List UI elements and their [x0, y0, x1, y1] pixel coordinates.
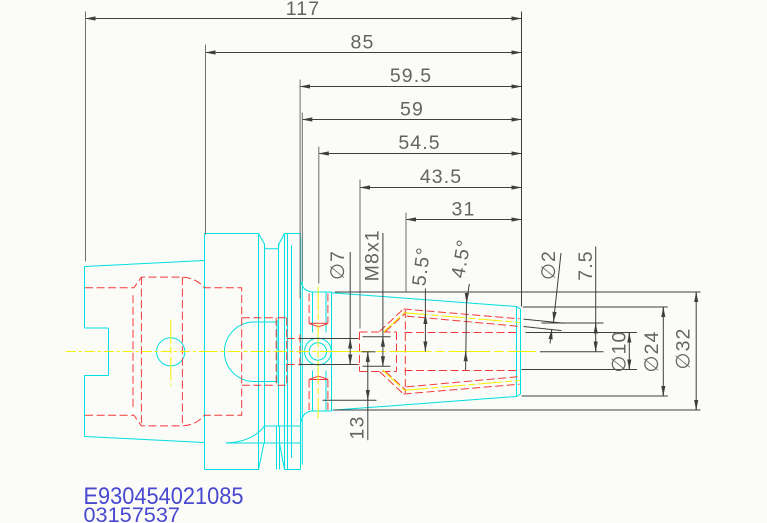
svg-text:∅24: ∅24	[641, 331, 663, 373]
coolant channel bottom	[404, 377, 520, 394]
flange left face	[204, 234, 206, 470]
ext centerline right	[540, 351, 604, 353]
shank taper top	[85, 261, 205, 267]
body cylinder top	[312, 291, 332, 293]
svg-text:59: 59	[400, 99, 424, 121]
flare chamfer top	[380, 309, 407, 332]
ext line 54.5	[318, 147, 320, 284]
cavity bore edge	[132, 295, 134, 408]
svg-text:7.5: 7.5	[575, 250, 597, 280]
dim 54.5 line	[319, 153, 522, 155]
flare axis top	[383, 313, 405, 333]
ext Ø7 bore	[300, 339, 358, 365]
radial hole bottom thread lines	[313, 371, 327, 411]
dim 13 leader	[367, 352, 369, 441]
radial hole bottom drill point	[309, 376, 328, 379]
ext line 43.5	[359, 180, 361, 329]
cross hole outer circle	[305, 338, 332, 365]
svg-text:13: 13	[347, 416, 369, 440]
flare end circle edge	[404, 310, 406, 393]
shank cavity bottom	[85, 385, 276, 426]
dim 117 line	[86, 18, 522, 20]
dim 31 line	[406, 219, 522, 221]
ext line 59	[301, 113, 303, 282]
dim M8x1 leader	[382, 233, 384, 366]
tip face	[520, 309, 522, 394]
radial hole top	[309, 294, 328, 324]
retainer rect caps	[278, 318, 286, 385]
ext line left face	[85, 12, 87, 262]
flange top V-groove	[259, 234, 285, 249]
outer cone top 4.5deg	[332, 293, 517, 307]
cross hole centerline	[317, 287, 319, 419]
coolant channel top	[404, 309, 520, 326]
shank taper bottom	[85, 437, 205, 443]
channel axis top	[405, 313, 520, 323]
dim 7.5 leader	[595, 247, 597, 352]
dim 4.5deg leader	[466, 284, 470, 370]
flare chamfer bottom	[380, 372, 407, 395]
ext line 59.5	[299, 80, 301, 299]
flange groove cylinder lines	[259, 234, 285, 470]
flange bottom groove lines	[226, 426, 300, 470]
tip chamfer edge	[516, 307, 518, 397]
flange bottom edge	[205, 469, 301, 471]
radial hole bottom	[309, 380, 328, 411]
dim Ø32 line	[695, 292, 697, 410]
inner bore Ø10 bottom	[405, 370, 520, 372]
fillet bottom	[301, 411, 311, 422]
radial hole top drill point	[309, 323, 328, 327]
side hole centerline	[170, 320, 172, 386]
dim Ø24 line	[662, 307, 664, 396]
svg-text:117: 117	[286, 0, 320, 20]
fillet top	[301, 282, 311, 292]
tube retainer rect	[276, 318, 287, 385]
body cylinder bottom	[312, 410, 332, 412]
ext Ø32	[334, 292, 701, 410]
ext line flange face	[205, 45, 207, 235]
dim 59 line	[302, 119, 521, 121]
dim 85 line	[206, 52, 522, 54]
svg-text:85: 85	[351, 32, 375, 54]
ext 7.5 top	[542, 322, 604, 324]
dim 5.5deg leader	[424, 289, 426, 352]
ext 13	[323, 399, 377, 401]
main centerline	[66, 351, 205, 353]
radial hole top thread lines	[313, 293, 327, 333]
svg-text:31: 31	[452, 199, 476, 221]
shank cavity top	[85, 277, 276, 318]
ext Ø2 channel slanted	[524, 319, 565, 331]
svg-text:43.5: 43.5	[420, 166, 462, 188]
svg-text:∅2: ∅2	[538, 250, 560, 280]
ext Ø24	[522, 307, 668, 396]
dim 59.5 line	[300, 86, 521, 88]
inner bore Ø10 top	[405, 332, 520, 334]
cavity vertical at flange	[241, 318, 243, 385]
svg-text:59.5: 59.5	[390, 65, 432, 87]
svg-text:∅7: ∅7	[327, 250, 349, 280]
dim Ø7 leader	[349, 252, 351, 365]
dim 43.5 line	[360, 187, 522, 189]
svg-text:∅10: ∅10	[609, 331, 631, 373]
svg-text:∅32: ∅32	[673, 328, 695, 370]
cross hole inner circle	[309, 343, 326, 360]
shank left face	[84, 267, 86, 437]
flange top edge	[205, 233, 301, 235]
svg-text:54.5: 54.5	[398, 132, 440, 154]
flange bottom groove arc	[226, 426, 264, 443]
svg-text:03157537: 03157537	[84, 504, 181, 523]
flange face undercut line	[301, 239, 303, 465]
side hole circle	[157, 338, 185, 366]
dim Ø10 line	[628, 333, 630, 370]
dim Ø2 leader	[554, 253, 562, 322]
channel axis bottom	[405, 381, 520, 391]
flare axis bottom	[383, 370, 405, 390]
flange face bore line	[299, 335, 301, 369]
thread section M8x1	[360, 332, 397, 372]
axial bore Ø7 bottom	[287, 364, 360, 366]
coolant tube dome	[224, 320, 277, 383]
ext M8 thread	[363, 337, 391, 366]
tip chamfer corners	[517, 307, 521, 397]
axial bore Ø7 top	[287, 338, 360, 340]
flange right rim lines	[288, 234, 292, 470]
cone start edges	[331, 292, 333, 411]
ext centerline at 13 dim	[362, 351, 376, 353]
svg-text:M8x1: M8x1	[361, 229, 383, 281]
cavity vertical left	[140, 277, 142, 426]
flange right face	[300, 234, 302, 470]
shank face notch	[85, 328, 109, 376]
ext Ø10	[522, 333, 638, 370]
ext line right tip	[521, 12, 523, 307]
cavity vertical right	[181, 277, 183, 426]
flange bottom V-groove	[259, 443, 285, 470]
ext line 31	[405, 213, 407, 292]
outer cone bottom	[332, 397, 517, 411]
